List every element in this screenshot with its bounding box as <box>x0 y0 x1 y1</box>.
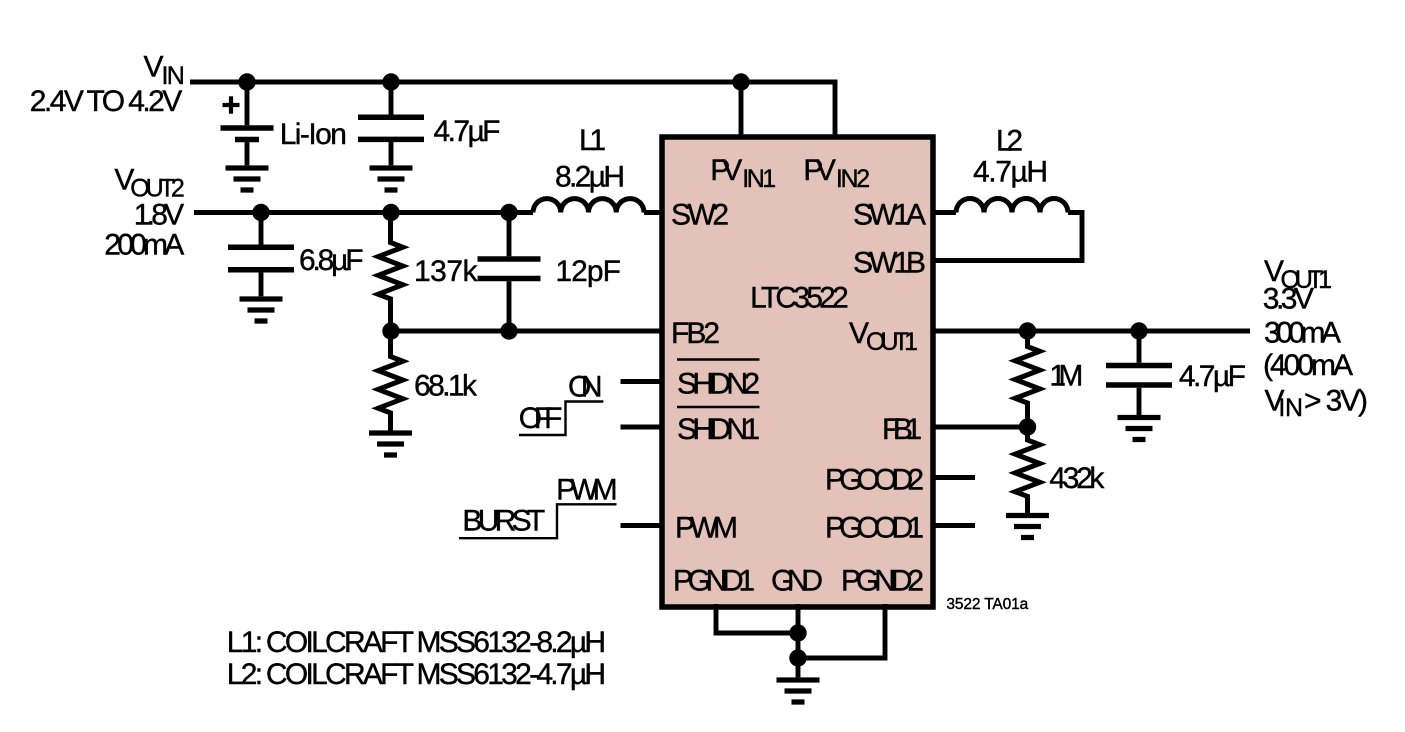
svg-text:N: N <box>1285 394 1303 422</box>
svg-text:IN1: IN1 <box>742 165 776 193</box>
svg-text:(400mA: (400mA <box>1263 349 1353 382</box>
svg-text:8.2µH: 8.2µH <box>555 161 625 194</box>
svg-text:4.7µF: 4.7µF <box>1179 360 1246 393</box>
svg-text:L2: L2 <box>996 125 1023 158</box>
svg-text:432k: 432k <box>1049 462 1105 495</box>
svg-text:PWM: PWM <box>556 474 618 507</box>
svg-text:6.8µF: 6.8µF <box>299 244 364 277</box>
svg-text:FB2: FB2 <box>671 317 720 350</box>
svg-text:3522 TA01a: 3522 TA01a <box>946 596 1028 613</box>
svg-text:IN2: IN2 <box>836 165 870 193</box>
svg-text:L1: L1 <box>579 124 606 157</box>
svg-text:PV: PV <box>803 154 836 187</box>
svg-text:LTC3522: LTC3522 <box>750 282 849 315</box>
svg-text:3.3V: 3.3V <box>1263 283 1314 316</box>
svg-text:SW1B: SW1B <box>853 246 926 279</box>
svg-text:SHDN2: SHDN2 <box>677 367 760 400</box>
svg-text:PGOOD2: PGOOD2 <box>825 463 924 496</box>
svg-text:V: V <box>144 51 164 84</box>
svg-text:SW1A: SW1A <box>853 198 926 231</box>
svg-text:PWM: PWM <box>675 511 738 544</box>
svg-text:68.1k: 68.1k <box>414 370 478 403</box>
svg-text:SHDN1: SHDN1 <box>677 413 760 446</box>
svg-text:137k: 137k <box>414 255 479 288</box>
svg-text:BURST: BURST <box>462 505 545 538</box>
svg-text:OUT1: OUT1 <box>866 328 918 356</box>
svg-text:OFF: OFF <box>519 402 563 435</box>
svg-text:12pF: 12pF <box>555 255 621 288</box>
svg-text:> 3V): > 3V) <box>1304 385 1368 418</box>
svg-text:4.7µH: 4.7µH <box>973 156 1048 189</box>
svg-text:L1: COILCRAFT MSS6132-8.2µH: L1: COILCRAFT MSS6132-8.2µH <box>227 626 606 659</box>
svg-text:L2: COILCRAFT MSS6132-4.7µH: L2: COILCRAFT MSS6132-4.7µH <box>227 658 606 691</box>
svg-text:GND: GND <box>771 565 823 598</box>
svg-text:PGOOD1: PGOOD1 <box>825 511 924 544</box>
svg-text:200mA: 200mA <box>104 229 184 262</box>
svg-text:PGND1: PGND1 <box>673 565 755 598</box>
svg-text:ON: ON <box>568 371 603 404</box>
svg-text:SW2: SW2 <box>671 198 729 231</box>
svg-text:1M: 1M <box>1049 360 1083 393</box>
svg-text:Li-Ion: Li-Ion <box>280 118 347 151</box>
svg-text:PV: PV <box>710 154 742 187</box>
svg-text:300mA: 300mA <box>1264 317 1341 350</box>
svg-text:PGND2: PGND2 <box>841 565 924 598</box>
svg-text:FB1: FB1 <box>882 413 922 446</box>
svg-text:4.7µF: 4.7µF <box>434 115 501 148</box>
svg-text:1.8V: 1.8V <box>134 199 185 232</box>
svg-text:2.4V TO 4.2V: 2.4V TO 4.2V <box>30 85 183 118</box>
